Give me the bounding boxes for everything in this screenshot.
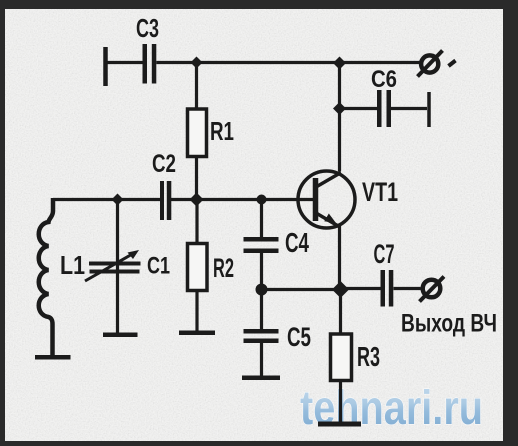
wire base rail left (L1 corner to C2) [53,198,160,201]
wire C4 column upper [260,200,263,238]
svg-text:R3: R3 [357,341,380,372]
ground (L1) [35,355,71,360]
capacitor C2 [160,181,171,220]
node junction base rail / R1 / R2 [190,193,204,207]
svg-text:C3: C3 [136,13,159,43]
output terminal top right [418,51,443,77]
capacitor C6 [377,90,391,127]
wire R2 column upper [195,200,198,244]
ground (R2) [179,331,215,336]
capacitor C1 (variable) [89,262,141,274]
node junction C3/R1 [191,57,203,69]
wire emitter column [338,226,341,290]
ground (C1) [103,333,138,338]
wire C7 row left [341,287,381,290]
wire top rail left of C3 [106,61,143,64]
wire R1 column upper [195,63,198,111]
node junction C4 top [257,195,267,205]
svg-text:C2: C2 [152,150,176,178]
svg-text:VT1: VT1 [362,177,398,207]
svg-text:L1: L1 [60,250,85,280]
node junction top rail / collector [333,57,346,70]
node junction C6 branch [333,102,346,115]
wire C1 column [116,200,119,335]
wire collector column [338,63,341,172]
svg-text:C4: C4 [285,227,309,258]
resistor R1 [188,109,207,157]
transistor VT1 [298,171,355,228]
ground (R3) [318,422,361,427]
wire R3 column lower to ground [339,381,342,424]
svg-text:C7: C7 [374,239,395,269]
node junction C4 / C5 [256,284,268,296]
terminal bar right of C6 [427,92,431,127]
svg-text:R1: R1 [210,116,234,146]
wire R2 column lower to ground [195,291,198,334]
wire C5 to ground [260,343,263,377]
svg-text:tehnari.ru: tehnari.ru [300,382,483,435]
wire C6 row right [391,107,427,110]
wire emitter row [262,288,341,291]
wire R1 column lower [195,156,198,201]
capacitor C4 [244,237,279,253]
wire base rail C2 to transistor base [171,198,314,201]
wire R3 column upper [339,290,342,335]
capacitor C5 [244,329,279,343]
svg-text:Выход ВЧ: Выход ВЧ [401,310,497,338]
wire C6 row left [340,107,378,110]
node junction L1 / C1 [112,194,124,206]
svg-text:R2: R2 [213,253,234,283]
capacitor C3 [143,44,157,84]
resistor R2 [188,244,208,291]
resistor R3 [331,334,352,381]
svg-text:C1: C1 [147,253,170,280]
inductor L1 [39,198,53,355]
wire top rail C3 to output terminal [156,61,420,64]
output terminal (Выход ВЧ) [420,277,445,302]
wire C7 row right [394,287,421,290]
ground (C5) [242,376,280,381]
svg-text:C6: C6 [371,66,397,93]
wire C4 to C5 junction [260,253,263,329]
tick mark near top terminal [449,61,456,67]
node junction emitter / R3 / C7 [332,281,349,298]
svg-text:C5: C5 [287,322,311,352]
terminal bar top-left [103,47,108,86]
capacitor C7 [381,270,394,307]
